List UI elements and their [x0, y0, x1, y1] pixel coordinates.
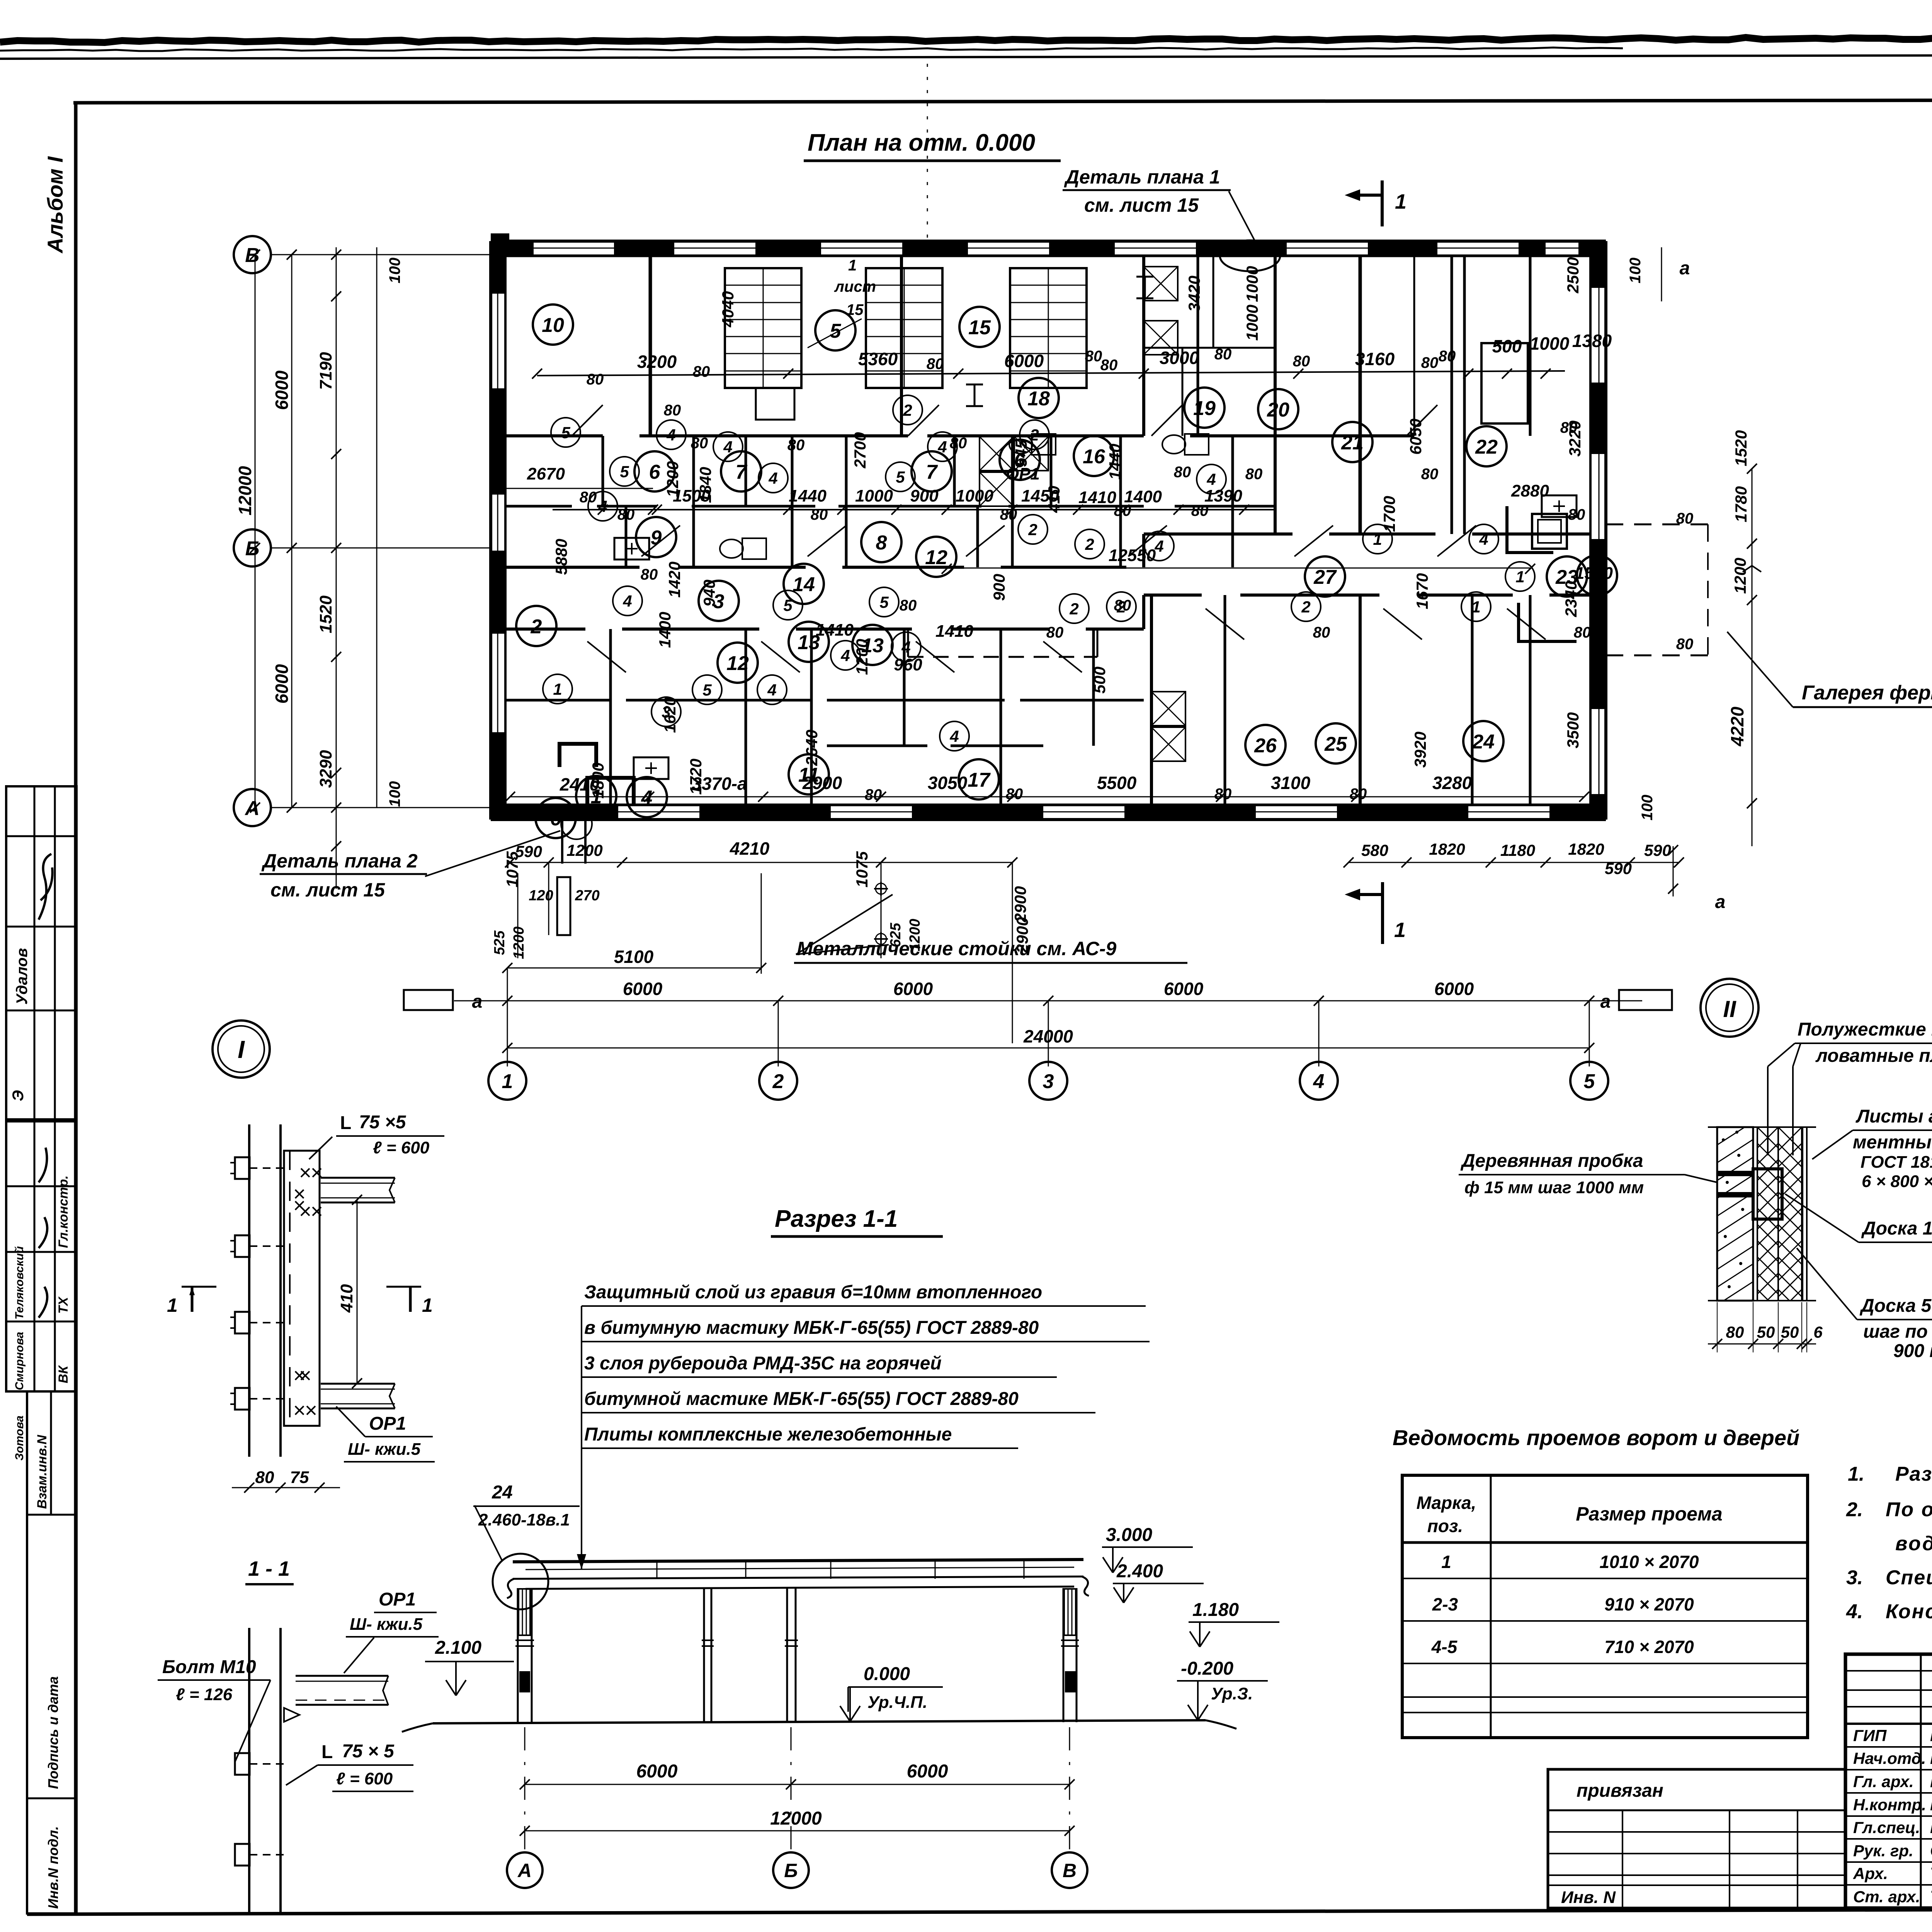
- svg-text:2.400: 2.400: [1116, 1561, 1163, 1582]
- plan entrance porch bottom-left: [561, 821, 563, 864]
- svg-text:1700: 1700: [1380, 496, 1398, 532]
- svg-text:80: 80: [950, 435, 967, 452]
- svg-text:Альбом I: Альбом I: [43, 156, 67, 254]
- left margin stamp table middle: [6, 1119, 77, 1391]
- svg-text:Подпись и дата: Подпись и дата: [45, 1676, 61, 1789]
- svg-text:Б: Б: [784, 1860, 798, 1881]
- svg-text:25: 25: [1324, 733, 1347, 755]
- svg-text:12: 12: [925, 546, 947, 569]
- svg-text:Ст. арх.: Ст. арх.: [1853, 1888, 1920, 1906]
- svg-text:2: 2: [531, 616, 542, 638]
- svg-text:24: 24: [492, 1482, 512, 1503]
- svg-text:80: 80: [1421, 354, 1439, 371]
- svg-text:1180: 1180: [1500, 841, 1535, 859]
- svg-text:Ким: Ким: [1930, 1749, 1932, 1768]
- svg-text:1: 1: [1471, 598, 1480, 616]
- svg-text:3.: 3.: [1846, 1566, 1863, 1589]
- svg-text:Марков: Марков: [1930, 1818, 1932, 1837]
- svg-text:16: 16: [1083, 446, 1105, 468]
- svg-text:12000: 12000: [770, 1808, 822, 1829]
- svg-text:24: 24: [1472, 731, 1495, 753]
- room 22 equipment rect: [1481, 343, 1528, 423]
- svg-text:ОР1: ОР1: [1006, 464, 1040, 483]
- svg-text:590: 590: [1605, 859, 1632, 878]
- svg-text:3000: 3000: [1160, 348, 1199, 368]
- svg-text:поз.: поз.: [1427, 1516, 1463, 1536]
- svg-text:водов высверлить по месту: водов высверлить по месту не нарушая арм…: [1895, 1532, 1932, 1555]
- vedomost table: [1402, 1475, 1808, 1738]
- svg-text:4: 4: [641, 787, 653, 809]
- svg-text:II: II: [1723, 996, 1736, 1022]
- svg-text:80: 80: [1245, 466, 1263, 483]
- svg-text:По оси 5 над дверным проемом: По оси 5 над дверным проемом отверстия д…: [1886, 1498, 1932, 1521]
- svg-text:18: 18: [1027, 388, 1050, 410]
- svg-text:1520: 1520: [1732, 430, 1750, 466]
- top wall extra partitions room 20-22: [1413, 256, 1415, 436]
- door swings: [641, 526, 680, 556]
- svg-text:1390: 1390: [1204, 486, 1242, 505]
- svg-text:8: 8: [876, 532, 887, 554]
- interior walls vertical: [649, 256, 652, 436]
- svg-text:L: L: [321, 1742, 333, 1762]
- svg-text:шаг по высоте: шаг по высоте: [1863, 1321, 1932, 1342]
- gallery dashed lines: [1606, 524, 1708, 526]
- svg-text:80: 80: [900, 597, 917, 614]
- svg-text:80: 80: [693, 363, 710, 380]
- svg-text:Деревянная пробка: Деревянная пробка: [1460, 1151, 1643, 1171]
- svg-text:6: 6: [550, 808, 562, 830]
- svg-text:940: 940: [700, 580, 718, 607]
- svg-text:545: 545: [1012, 439, 1030, 467]
- svg-text:9: 9: [651, 527, 662, 549]
- svg-text:50: 50: [1781, 1323, 1799, 1341]
- svg-text:80: 80: [1100, 357, 1118, 374]
- svg-text:3100: 3100: [1271, 773, 1311, 793]
- svg-text:500: 500: [1090, 667, 1109, 694]
- svg-text:Гаврилов: Гаврилов: [1930, 1772, 1932, 1791]
- svg-text:Марков: Марков: [1930, 1795, 1932, 1814]
- svg-text:6000: 6000: [636, 1761, 678, 1782]
- svg-text:ℓ = 600: ℓ = 600: [336, 1769, 393, 1788]
- svg-text:80: 80: [1006, 786, 1023, 803]
- svg-text:80: 80: [1676, 636, 1694, 653]
- svg-text:120: 120: [529, 888, 553, 904]
- axis dimension row 6000s: [454, 1000, 1642, 1002]
- svg-text:3290: 3290: [316, 750, 335, 788]
- svg-text:5: 5: [896, 468, 905, 486]
- svg-text:Трушина: Трушина: [1930, 1864, 1932, 1883]
- svg-text:План на отм. 0.000: План на отм. 0.000: [808, 129, 1035, 156]
- svg-text:3050: 3050: [928, 773, 968, 793]
- svg-text:L: L: [340, 1113, 351, 1133]
- svg-text:1000: 1000: [1530, 333, 1570, 354]
- svg-text:2880: 2880: [1511, 481, 1549, 500]
- svg-text:80: 80: [1568, 506, 1585, 523]
- svg-text:15: 15: [968, 316, 991, 339]
- svg-text:ℓ = 600: ℓ = 600: [373, 1138, 430, 1157]
- svg-text:ментные плоские: ментные плоские: [1853, 1132, 1932, 1153]
- svg-text:привязан: привязан: [1577, 1781, 1663, 1801]
- svg-text:75: 75: [290, 1468, 309, 1487]
- svg-text:Теляковский: Теляковский: [13, 1246, 26, 1320]
- svg-text:80: 80: [811, 506, 828, 523]
- svg-text:580: 580: [1361, 841, 1388, 859]
- svg-text:1: 1: [1441, 1552, 1451, 1572]
- svg-text:Инв. N: Инв. N: [1561, 1888, 1616, 1907]
- svg-text:80: 80: [1085, 348, 1102, 365]
- title block outer: [1845, 1654, 1932, 1908]
- svg-text:1400: 1400: [656, 612, 674, 648]
- section axis circle V: [1052, 1852, 1087, 1888]
- svg-text:ℓ = 126: ℓ = 126: [176, 1685, 233, 1704]
- svg-text:80: 80: [1726, 1323, 1744, 1341]
- svg-text:4220: 4220: [1727, 706, 1747, 747]
- svg-text:1450: 1450: [1021, 486, 1059, 505]
- interior wall horizontal upper band: [505, 434, 603, 437]
- svg-text:80: 80: [617, 506, 635, 523]
- svg-text:Ур.Ч.П.: Ур.Ч.П.: [867, 1693, 927, 1712]
- detail II dims 80 50 50 6: [1708, 1344, 1816, 1345]
- svg-text:80: 80: [1114, 597, 1131, 614]
- svg-text:1: 1: [553, 680, 562, 698]
- svg-text:1410: 1410: [816, 621, 854, 639]
- svg-text:лист: лист: [834, 278, 876, 295]
- svg-text:3.000: 3.000: [1106, 1525, 1152, 1545]
- svg-text:7: 7: [736, 461, 748, 483]
- svg-text:ГИП: ГИП: [1853, 1726, 1887, 1745]
- sinks: [614, 538, 649, 560]
- svg-text:75 ×5: 75 ×5: [359, 1112, 406, 1133]
- svg-text:6: 6: [1813, 1323, 1823, 1341]
- svg-text:6000: 6000: [1164, 979, 1204, 999]
- svg-text:Спецификация элементов запол: Спецификация элементов заполнения проемо…: [1886, 1566, 1932, 1589]
- svg-text:Арх.: Арх.: [1853, 1864, 1888, 1883]
- zone circle I: [213, 1020, 270, 1078]
- svg-text:12: 12: [726, 652, 749, 675]
- shower stalls X boxes: [980, 437, 1014, 471]
- entrance box right rooms 23: [1507, 506, 1553, 553]
- svg-text:3 слоя рубероида РМД-35С на го: 3 слоя рубероида РМД-35С на горячей: [584, 1353, 942, 1374]
- svg-text:5: 5: [1584, 1070, 1595, 1093]
- svg-text:5500: 5500: [1097, 773, 1137, 793]
- svg-text:Галерея фермы: Галерея фермы: [1802, 682, 1932, 704]
- fold crease dashed: [927, 64, 928, 247]
- svg-text:1075: 1075: [853, 851, 871, 888]
- svg-text:80: 80: [1439, 348, 1456, 365]
- axis circle A: [234, 789, 271, 826]
- svg-text:Полужесткие минера-: Полужесткие минера-: [1798, 1019, 1932, 1040]
- outer wall right: [1604, 241, 1607, 820]
- svg-text:4040: 4040: [719, 291, 737, 327]
- svg-text:21: 21: [1341, 432, 1364, 454]
- bottom dimension chains left cluster: [510, 862, 1012, 863]
- svg-text:80: 80: [1421, 466, 1439, 483]
- svg-text:80: 80: [1293, 353, 1310, 370]
- I-beam column marks: [966, 384, 983, 386]
- svg-text:410: 410: [337, 1284, 356, 1313]
- svg-text:1380: 1380: [1572, 331, 1612, 351]
- interior wall lower band: [505, 699, 611, 702]
- svg-text:80: 80: [641, 566, 658, 583]
- axis dimension 24000: [507, 1048, 1589, 1049]
- svg-text:80: 80: [1000, 506, 1017, 523]
- svg-text:80: 80: [1214, 786, 1232, 803]
- svg-text:900 мм: 900 мм: [1893, 1341, 1932, 1361]
- svg-text:1000: 1000: [956, 486, 993, 505]
- svg-text:2: 2: [772, 1070, 784, 1093]
- svg-text:19: 19: [1193, 397, 1216, 420]
- svg-text:Разрез 1-1: Разрез 1-1: [775, 1206, 898, 1232]
- svg-text:5880: 5880: [552, 539, 570, 575]
- svg-text:1440: 1440: [789, 486, 827, 505]
- section dims 6000 6000 12000: [525, 1784, 1070, 1785]
- svg-text:1420: 1420: [665, 561, 684, 597]
- svg-text:ОР1: ОР1: [379, 1589, 416, 1610]
- room number circles: [533, 304, 573, 345]
- svg-text:1200: 1200: [511, 927, 527, 959]
- svg-text:3420: 3420: [1185, 276, 1203, 311]
- svg-text:6000: 6000: [1434, 979, 1474, 999]
- outer wall top: [491, 240, 1606, 243]
- svg-text:900: 900: [910, 486, 939, 505]
- svg-text:4: 4: [767, 681, 776, 699]
- axis circles 1-5: [488, 1062, 526, 1100]
- corridor lower wall right: [1144, 594, 1202, 597]
- svg-text:битумной мастике МБК-Г-65(55): битумной мастике МБК-Г-65(55) ГОСТ 2889-…: [584, 1389, 1019, 1409]
- svg-text:80: 80: [865, 786, 882, 803]
- svg-text:100: 100: [1639, 795, 1656, 821]
- svg-text:6: 6: [649, 461, 661, 483]
- svg-text:80: 80: [1174, 464, 1191, 481]
- svg-text:6000: 6000: [907, 1761, 948, 1782]
- svg-text:Удалов: Удалов: [14, 948, 31, 1005]
- svg-text:22: 22: [1475, 436, 1498, 458]
- svg-text:ТХ: ТХ: [56, 1296, 71, 1314]
- svg-text:Ур.З.: Ур.З.: [1211, 1684, 1253, 1703]
- frame left edge: [74, 101, 78, 1913]
- axis circle V: [234, 236, 271, 273]
- svg-text:2640: 2640: [803, 730, 821, 766]
- svg-text:500: 500: [1492, 336, 1522, 356]
- svg-text:6050: 6050: [1406, 418, 1425, 454]
- svg-text:2500: 2500: [1564, 257, 1582, 293]
- svg-text:75 × 5: 75 × 5: [342, 1741, 395, 1762]
- scan paper edge top jagged band: [0, 36, 1932, 43]
- svg-text:1410: 1410: [1078, 488, 1116, 507]
- svg-text:590: 590: [1644, 841, 1671, 859]
- svg-text:Конструкцию кровли над душе: Конструкцию кровли над душевыми см. АС-1…: [1886, 1600, 1932, 1623]
- svg-text:1670: 1670: [1413, 573, 1431, 609]
- section ground line: [433, 1720, 1206, 1723]
- svg-text:80: 80: [1560, 419, 1578, 436]
- svg-text:3160: 3160: [1355, 349, 1395, 369]
- svg-text:1: 1: [502, 1070, 513, 1093]
- svg-text:3280: 3280: [1432, 773, 1472, 793]
- svg-text:Ш- кжи.5: Ш- кжи.5: [350, 1615, 423, 1634]
- svg-text:5100: 5100: [614, 947, 654, 967]
- svg-text:2: 2: [1301, 598, 1310, 616]
- svg-text:1.180: 1.180: [1192, 1600, 1239, 1620]
- svg-text:4: 4: [840, 646, 850, 665]
- axis circle B: [234, 529, 271, 566]
- svg-text:1620: 1620: [661, 697, 679, 733]
- svg-text:3370-а: 3370-а: [692, 774, 747, 794]
- section axis circle B: [773, 1852, 809, 1888]
- svg-text:1: 1: [422, 1294, 433, 1316]
- svg-text:1: 1: [1394, 918, 1406, 942]
- svg-text:Доска 50 × 100: Доска 50 × 100: [1859, 1296, 1932, 1316]
- svg-text:4: 4: [622, 592, 632, 610]
- svg-text:Э: Э: [10, 1090, 27, 1101]
- svg-text:80: 80: [927, 355, 944, 372]
- svg-text:2700: 2700: [851, 432, 869, 468]
- svg-text:см. лист 15: см. лист 15: [1084, 194, 1199, 216]
- detail II wall section: [1717, 1127, 1753, 1301]
- svg-text:2: 2: [1085, 535, 1094, 553]
- toilets: [1009, 435, 1032, 454]
- svg-text:ф 15 мм шаг 1000 мм: ф 15 мм шаг 1000 мм: [1464, 1178, 1644, 1197]
- svg-text:1200: 1200: [853, 639, 871, 675]
- svg-text:Гл. арх.: Гл. арх.: [1853, 1772, 1914, 1791]
- svg-text:4: 4: [901, 638, 910, 656]
- bottom dimension chains right cluster: [1349, 862, 1679, 863]
- svg-text:2: 2: [1029, 426, 1039, 444]
- svg-text:Доска 100 × 50: Доска 100 × 50: [1861, 1218, 1932, 1239]
- svg-text:80: 80: [1114, 502, 1131, 519]
- svg-text:Разрез 2-2 см. АС-4 .: Разрез 2-2 см. АС-4 .: [1895, 1463, 1932, 1485]
- svg-text:1780: 1780: [1732, 486, 1750, 522]
- svg-text:Рук. гр.: Рук. гр.: [1853, 1842, 1913, 1860]
- svg-text:2.100: 2.100: [435, 1638, 481, 1658]
- svg-text:960: 960: [894, 655, 922, 674]
- svg-text:Скобликов: Скобликов: [1930, 1841, 1932, 1860]
- detail 1 dims 80 75: [232, 1487, 340, 1488]
- svg-text:5: 5: [561, 423, 570, 442]
- svg-text:ловатные плиты: ловатные плиты: [1815, 1046, 1932, 1066]
- svg-text:7190: 7190: [316, 352, 335, 390]
- svg-text:Гл.спец.: Гл.спец.: [1853, 1818, 1920, 1837]
- staff table: [1920, 1654, 1922, 1908]
- svg-text:-0.200: -0.200: [1181, 1658, 1233, 1679]
- svg-text:4: 4: [1313, 1070, 1325, 1093]
- vestibule box bottom-left: [560, 744, 596, 767]
- frame bottom edge: [27, 1908, 1932, 1914]
- svg-text:1010 × 2070: 1010 × 2070: [1599, 1552, 1699, 1572]
- corridor lower wall left: [505, 628, 585, 631]
- locker banks rooms 5/15: [725, 268, 801, 388]
- svg-text:1820: 1820: [1568, 840, 1604, 858]
- svg-text:5: 5: [830, 320, 842, 342]
- top frame thin line: [0, 54, 1932, 59]
- sheet frame second top line: [73, 99, 1932, 103]
- door mark circles: [551, 418, 580, 447]
- privyazan box: [1548, 1769, 1845, 1908]
- svg-text:Взам.инв.N: Взам.инв.N: [35, 1434, 49, 1509]
- svg-text:80: 80: [664, 402, 681, 419]
- detail 1 dim 410: [357, 1200, 358, 1383]
- svg-text:Защитный слой из гравия б=10мм: Защитный слой из гравия б=10мм втопленно…: [584, 1282, 1042, 1303]
- svg-text:4: 4: [768, 469, 777, 487]
- svg-text:3500: 3500: [1564, 712, 1582, 748]
- svg-text:5: 5: [783, 596, 793, 614]
- left margin stamp table lower: [27, 1391, 77, 1913]
- svg-text:590: 590: [515, 842, 542, 861]
- top secondary jagged thin line: [0, 48, 1623, 51]
- svg-text:5: 5: [620, 463, 629, 481]
- svg-text:Ведомость проемов ворот и дв: Ведомость проемов ворот и дверей: [1393, 1425, 1799, 1450]
- svg-text:17: 17: [968, 769, 991, 791]
- svg-text:I: I: [238, 1036, 245, 1063]
- svg-text:Танаева: Танаева: [1930, 1887, 1932, 1906]
- svg-text:Н.контр.: Н.контр.: [1853, 1796, 1926, 1814]
- svg-text:Листы асбестоце-: Листы асбестоце-: [1855, 1106, 1932, 1127]
- svg-text:100: 100: [1627, 258, 1644, 284]
- svg-text:Деталь плана 1: Деталь плана 1: [1064, 166, 1220, 188]
- svg-text:Марка,: Марка,: [1417, 1493, 1476, 1513]
- left margin stamp table upper: [6, 786, 77, 1121]
- detail 1 section marks 1: [182, 1286, 216, 1288]
- interior wall mid band: [505, 505, 572, 508]
- section mark 1 bottom: [1381, 882, 1384, 944]
- svg-text:1: 1: [167, 1294, 178, 1316]
- detail 2: [248, 1628, 250, 1913]
- svg-text:Зотова: Зотова: [13, 1415, 26, 1461]
- svg-text:80: 80: [1191, 502, 1209, 519]
- svg-text:80: 80: [587, 371, 604, 388]
- svg-text:1: 1: [1373, 530, 1382, 548]
- svg-text:В: В: [245, 244, 260, 267]
- svg-text:Ш- кжи.5: Ш- кжи.5: [348, 1440, 421, 1459]
- svg-text:Гл.констр.: Гл.констр.: [56, 1175, 71, 1248]
- svg-text:50: 50: [1757, 1323, 1775, 1341]
- svg-text:100: 100: [386, 781, 403, 807]
- svg-text:26: 26: [1254, 735, 1277, 757]
- svg-text:ГОСТ 18124-75: ГОСТ 18124-75: [1861, 1153, 1932, 1172]
- svg-text:3: 3: [1043, 1070, 1054, 1093]
- svg-text:А: А: [244, 797, 260, 820]
- svg-text:12000: 12000: [235, 466, 255, 515]
- detail 1 panel edge: [248, 1124, 250, 1457]
- svg-text:Смирнова: Смирнова: [13, 1332, 26, 1390]
- svg-text:ВК: ВК: [56, 1365, 71, 1383]
- svg-text:4: 4: [1479, 530, 1488, 548]
- svg-text:1410: 1410: [935, 622, 973, 641]
- svg-text:Болт М10: Болт М10: [162, 1657, 256, 1677]
- svg-text:20: 20: [1267, 399, 1289, 421]
- svg-text:5: 5: [879, 593, 889, 611]
- svg-text:2-3: 2-3: [1432, 1594, 1458, 1614]
- svg-text:1: 1: [1515, 568, 1524, 586]
- svg-text:80: 80: [1313, 624, 1330, 641]
- svg-text:4-5: 4-5: [1431, 1637, 1458, 1657]
- left dimension chains: [255, 255, 256, 808]
- corridor niche dashed: [908, 656, 1097, 658]
- svg-text:2670: 2670: [527, 464, 565, 483]
- svg-text:1: 1: [1395, 190, 1406, 213]
- outer wall left: [489, 241, 492, 820]
- svg-text:1 - 1: 1 - 1: [248, 1557, 290, 1580]
- svg-text:7: 7: [926, 461, 938, 483]
- svg-text:6000: 6000: [272, 370, 292, 410]
- svg-text:а: а: [1680, 258, 1690, 279]
- corridor upper wall: [505, 566, 639, 569]
- svg-text:ОР1: ОР1: [369, 1413, 406, 1434]
- svg-text:4: 4: [666, 426, 675, 444]
- section columns: [517, 1588, 519, 1722]
- svg-text:а: а: [1600, 992, 1611, 1012]
- svg-text:1000: 1000: [855, 486, 893, 505]
- svg-text:А: А: [517, 1860, 532, 1881]
